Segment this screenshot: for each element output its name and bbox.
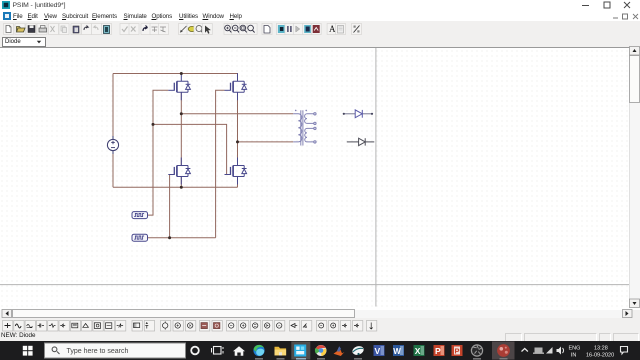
visio (374, 345, 385, 356)
word (393, 345, 404, 356)
edge (253, 345, 264, 356)
search box (45, 343, 186, 358)
svg-text:16-09-2020: 16-09-2020 (586, 352, 614, 358)
svg-text:A: A (329, 24, 336, 34)
junction: bottom rail / Q3 source (180, 186, 183, 189)
running underlines (255, 358, 508, 359)
svg-text:Type here to search: Type here to search (67, 348, 129, 355)
junction: gate net 1 branch (152, 123, 155, 126)
title bar (0, 0, 640, 11)
wire: Q3 source to bottom rail (180, 177, 182, 188)
DC voltage source VDC (107, 136, 118, 154)
junction: node A (180, 112, 183, 115)
taskbar (0, 341, 640, 360)
wire: gate net 1 branch to Q4 gate (153, 124, 231, 174)
tray chevron (522, 349, 528, 352)
transformer TX1 (293, 110, 316, 146)
powerpoint (434, 345, 445, 356)
junction: top rail / Q1 drain (180, 72, 183, 75)
orange office app (452, 345, 463, 356)
wire: left rail bottom (source to bottom rail) (112, 151, 114, 188)
excel (414, 345, 425, 356)
matlab (334, 347, 345, 356)
folder (275, 347, 287, 356)
svg-text:W: W (393, 347, 401, 356)
wire: gate net 2 branch to Q3 gate (170, 175, 174, 238)
start button (23, 346, 33, 356)
wire: gate net 2 horizontal (block G2 to riser) (148, 237, 216, 239)
svg-text:IN: IN (571, 352, 577, 358)
wire: Q4 source to bottom rail (237, 177, 239, 188)
wire: node A to transformer primary top (181, 113, 293, 115)
MOSFET Q2 (top right) (225, 73, 247, 100)
wire: gate net 2 riser to Q2 gate (216, 90, 225, 237)
cortana (191, 347, 199, 355)
toolbar row 1 (0, 21, 640, 37)
wire: top rail (113, 74, 238, 79)
menu bar (0, 11, 640, 21)
wire: left rail top (source to top rail) (112, 74, 114, 140)
diode D1 (new, selected) (343, 110, 373, 118)
gating block G2 (132, 234, 148, 241)
svg-text:13:28: 13:28 (594, 345, 608, 351)
MOSFET Q1 (top left) (168, 73, 190, 100)
gating block G1 (132, 212, 148, 219)
PSIM running highlighted (291, 342, 310, 360)
wire: gate net 1 vertical (block G1 up to Q1 gate) (148, 90, 169, 215)
MOSFET Q4 (bottom right) (225, 158, 247, 185)
wire: leg A middle (Q1 source to Q3 drain) (180, 93, 182, 166)
red round tile (492, 342, 515, 360)
chrome (316, 345, 327, 356)
tray speaker (557, 347, 562, 355)
svg-text:V: V (375, 346, 381, 356)
svg-text:X: X (415, 346, 421, 356)
tray laptop (535, 348, 543, 353)
schematic canvas (0, 48, 640, 310)
page boundary horizontal (0, 284, 631, 286)
svg-text:P: P (455, 347, 460, 356)
vertical scrollbar (629, 48, 640, 308)
wire: leg B middle (Q2 source to Q4 drain) (237, 93, 239, 166)
element toolbar (0, 318, 640, 332)
status bar (0, 332, 640, 341)
page boundary vertical (375, 48, 377, 307)
task view (212, 347, 224, 355)
diode D2 (347, 138, 375, 145)
toolbar row 2: combo (0, 36, 640, 47)
white swoosh app (351, 345, 365, 357)
action center (621, 347, 628, 354)
junction: gate net 2 branch (168, 236, 171, 239)
wire: bottom rail (113, 186, 238, 188)
junction: node B (236, 140, 239, 143)
svg-text:ENG: ENG (569, 345, 581, 351)
svg-text:P: P (435, 346, 441, 356)
wire: node B to transformer primary bottom (238, 141, 294, 143)
shutter circle app (471, 345, 482, 356)
tray signal (546, 347, 553, 354)
horizontal scrollbar (0, 310, 631, 318)
MOSFET Q3 (bottom left) (168, 158, 190, 185)
home icon (233, 346, 245, 356)
